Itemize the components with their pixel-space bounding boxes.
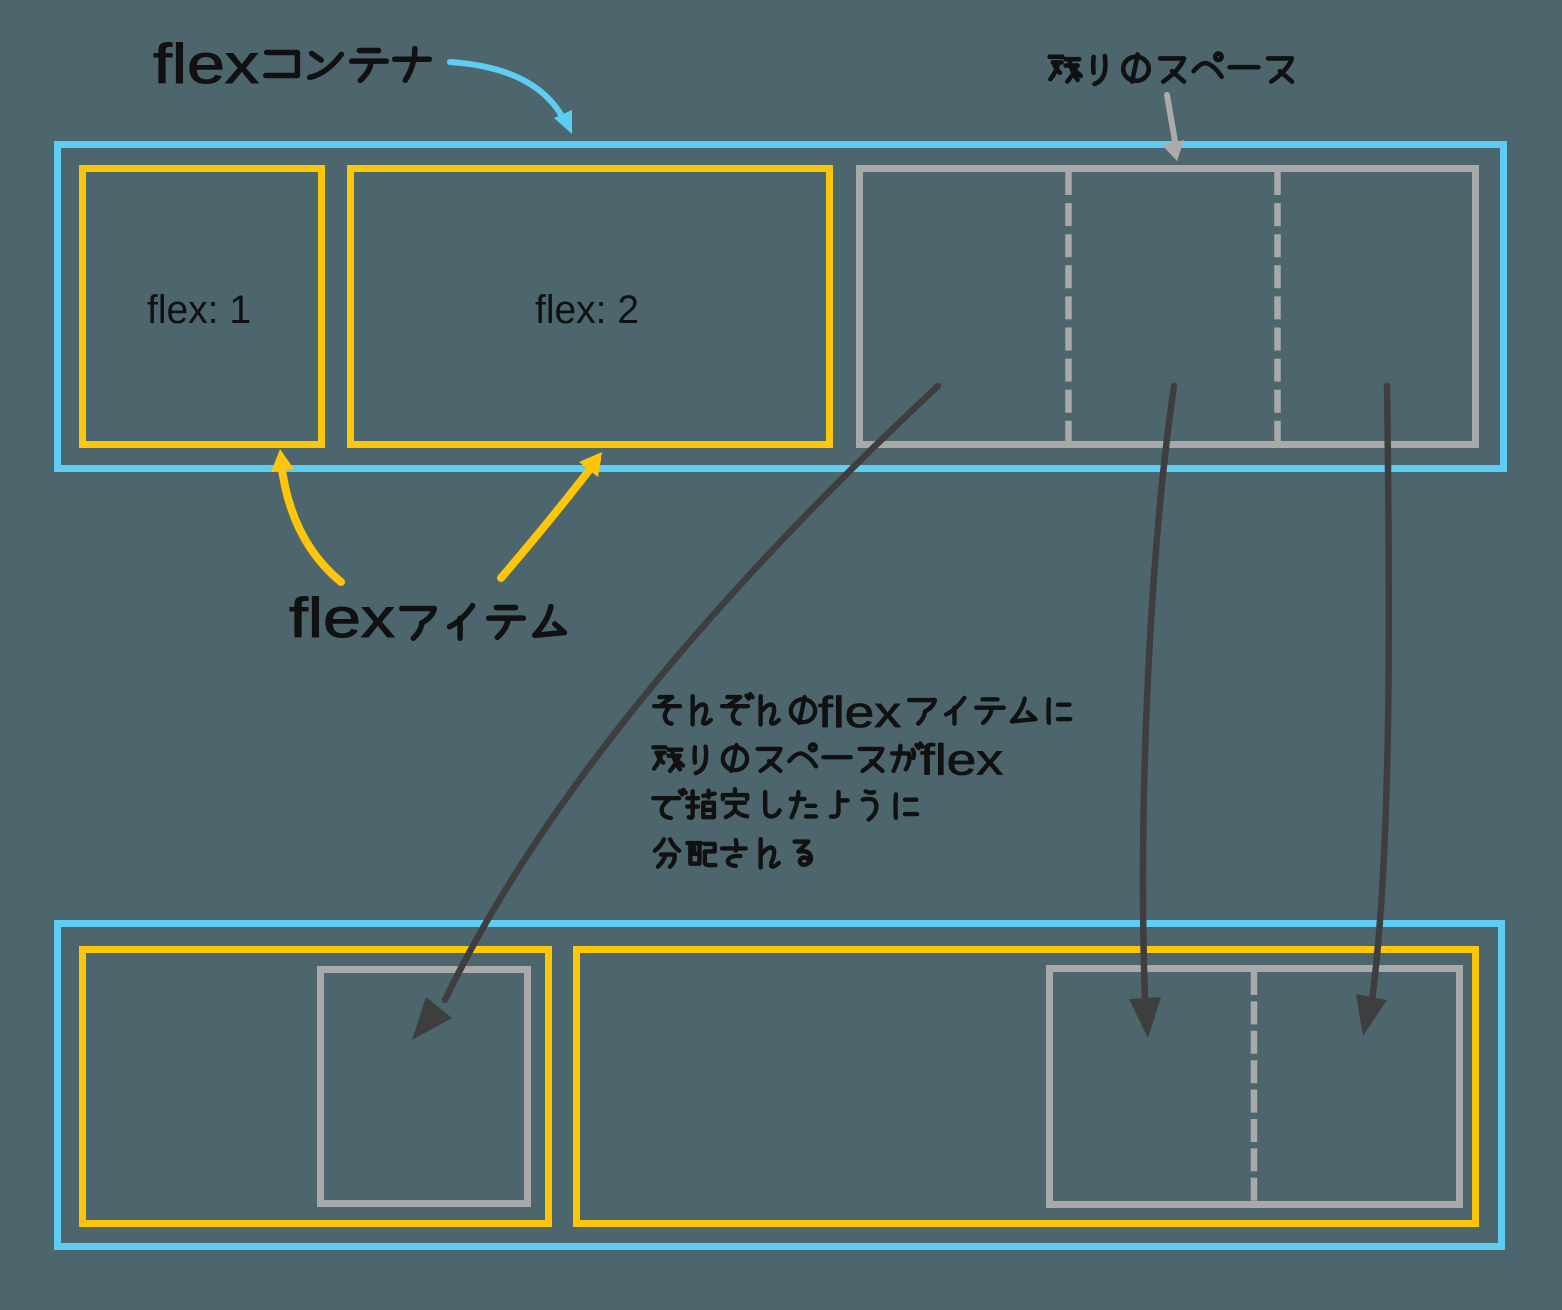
svg-text:flex: flex xyxy=(289,586,395,649)
svg-text:flex: flex xyxy=(818,688,901,737)
svg-text:flex: 1: flex: 1 xyxy=(147,288,251,332)
svg-text:flex: flex xyxy=(920,736,1003,785)
svg-text:flex: flex xyxy=(153,32,259,95)
svg-text:flex: 2: flex: 2 xyxy=(535,288,639,332)
